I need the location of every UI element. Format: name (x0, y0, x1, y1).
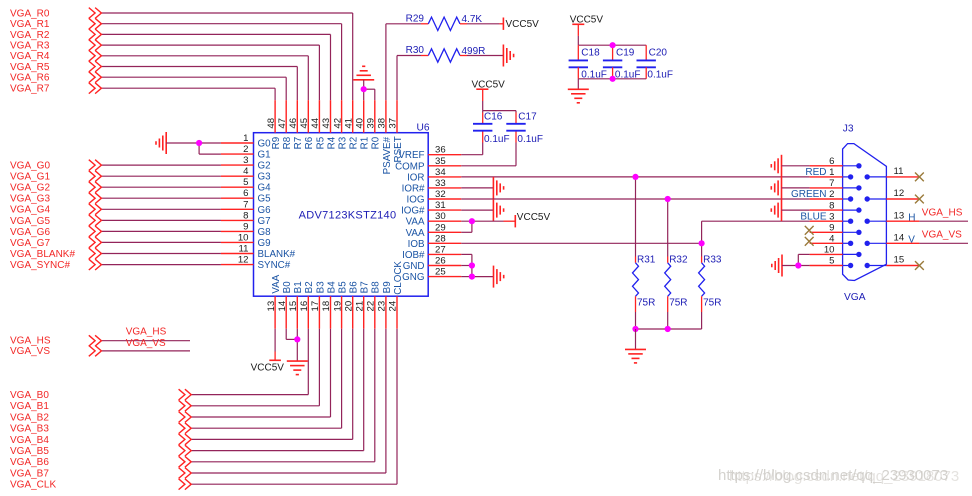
svg-text:21: 21 (354, 301, 365, 312)
resistor R32 75R (665, 199, 688, 329)
power symbol VCC5V above C18 C19 C20 (570, 15, 604, 36)
svg-text:U6: U6 (416, 123, 429, 134)
svg-text:VGA_B0: VGA_B0 (10, 390, 49, 401)
J3 pin circles (843, 163, 887, 268)
power symbol VCC5V at VAA (515, 212, 550, 228)
svg-text:27: 27 (435, 244, 446, 255)
svg-text:G1: G1 (258, 150, 271, 161)
svg-text:45: 45 (299, 118, 310, 129)
capacitor C17 0.1uF (506, 111, 543, 145)
svg-text:IOG: IOG (407, 195, 425, 206)
svg-text:44: 44 (310, 117, 321, 128)
junction at C19 bottom (610, 76, 616, 82)
U6 right pin numbers 36-25 (435, 145, 446, 278)
svg-text:75R: 75R (637, 298, 655, 309)
svg-text:48: 48 (266, 118, 277, 129)
svg-text:VGA_VS: VGA_VS (10, 346, 50, 357)
svg-text:VGA_R2: VGA_R2 (10, 30, 50, 41)
svg-text:VGA_B1: VGA_B1 (10, 401, 49, 412)
svg-text:BLANK#: BLANK# (258, 249, 296, 260)
svg-text:28: 28 (435, 233, 446, 244)
svg-text:VAA: VAA (406, 217, 425, 228)
svg-text:2: 2 (243, 144, 248, 155)
junction at C19 top (610, 42, 616, 48)
svg-text:VGA_B3: VGA_B3 (10, 424, 49, 435)
junction R31 top (632, 174, 638, 180)
wire VGA_HS stub (101, 340, 190, 342)
ground at U6 pins 1,2 (G0,G1) (156, 132, 221, 154)
svg-text:8: 8 (243, 210, 248, 221)
svg-text:8: 8 (829, 200, 834, 211)
svg-text:25: 25 (435, 267, 446, 278)
capacitor C19 0.1uF (603, 48, 641, 81)
svg-text:BLUE: BLUE (800, 211, 826, 222)
ground at R30 (503, 45, 513, 67)
svg-text:B3: B3 (315, 281, 326, 294)
svg-text:R29: R29 (406, 13, 425, 24)
svg-text:G8: G8 (258, 227, 272, 238)
svg-text:C17: C17 (518, 111, 537, 122)
svg-text:RED: RED (805, 167, 826, 178)
svg-text:SYNC#: SYNC# (258, 260, 291, 271)
wires VGA_R0..VGA_R7 from chevrons to U6 pins 41..48 (101, 13, 353, 100)
ground at U6 pins 27,26,25 (494, 266, 504, 288)
ground at U6 pins 14,15 (B0,B1) (286, 329, 308, 375)
svg-text:41: 41 (343, 118, 354, 129)
svg-text:VGA_B2: VGA_B2 (10, 412, 49, 423)
U6 left pins 1-12 stubs (221, 143, 254, 265)
svg-text:R2: R2 (349, 137, 360, 150)
svg-text:17: 17 (310, 301, 321, 312)
svg-text:C16: C16 (484, 111, 503, 122)
svg-text:1: 1 (829, 167, 834, 178)
svg-text:37: 37 (388, 118, 399, 129)
wire J3 pin13 VGA_HS (908, 208, 968, 224)
svg-text:29: 29 (435, 222, 446, 233)
ground at U6 pin33 IOR# (461, 177, 503, 199)
svg-text:4: 4 (829, 234, 835, 245)
svg-text:499R: 499R (462, 46, 486, 57)
J3 left pin numbers (824, 156, 835, 267)
svg-text:10: 10 (824, 245, 835, 256)
svg-text:22: 22 (366, 301, 377, 312)
svg-text:VGA_B5: VGA_B5 (10, 446, 49, 457)
svg-text:VCC5V: VCC5V (472, 80, 506, 91)
svg-text:26: 26 (435, 256, 446, 267)
svg-text:7: 7 (829, 178, 834, 189)
svg-text:3: 3 (243, 155, 248, 166)
svg-text:VGA_SYNC#: VGA_SYNC# (10, 260, 70, 271)
wires VGA_B0..B7 VGA_CLK to U6 pins 16-24 (191, 329, 397, 485)
svg-text:12: 12 (238, 255, 249, 266)
svg-text:CLOCK: CLOCK (393, 261, 404, 295)
svg-text:2: 2 (829, 189, 834, 200)
svg-text:0.1uF: 0.1uF (484, 134, 510, 145)
wire U6 pin32 IOG to J3 pin2 GREEN (461, 198, 809, 200)
U6 left pin numbers 1-12 (238, 133, 249, 266)
svg-text:47: 47 (277, 118, 288, 129)
junction rail R32 (665, 326, 671, 332)
svg-text:IOG#: IOG# (401, 206, 425, 217)
no-connect X at J3 pin11 (915, 173, 924, 182)
svg-text:R5: R5 (315, 136, 326, 149)
svg-text:VGA: VGA (844, 292, 866, 303)
svg-text:IOR#: IOR# (402, 183, 425, 194)
svg-text:75R: 75R (669, 298, 687, 309)
no-connect X at J3 pin9 (805, 226, 814, 235)
svg-text:1: 1 (243, 133, 248, 144)
resistor R29 4.7K (406, 13, 504, 30)
svg-text:18: 18 (321, 301, 332, 312)
ground below C18 (568, 79, 589, 103)
svg-text:VCC5V: VCC5V (517, 212, 551, 223)
wire VCC5V rail to caps C18 C19 C20 (578, 36, 646, 61)
net labels VGA_G0..VGA_G7 VGA_BLANK# VGA_SYNC# (10, 161, 75, 272)
svg-text:VGA_R6: VGA_R6 (10, 73, 50, 84)
svg-text:B1: B1 (293, 281, 304, 293)
wire VCC5V to caps C16 C17 (483, 101, 516, 124)
svg-text:0.1uF: 0.1uF (517, 134, 543, 145)
svg-text:12: 12 (894, 188, 905, 199)
svg-text:39: 39 (366, 118, 377, 129)
svg-text:19: 19 (332, 301, 343, 312)
wires VGA_G0..G7 BLANK SYNC to U6 pins 3-12 (101, 165, 221, 265)
ground below terminator rail (625, 329, 646, 363)
svg-text:30: 30 (435, 211, 446, 222)
svg-text:VAA: VAA (406, 228, 425, 239)
svg-text:23: 23 (377, 301, 388, 312)
svg-text:VGA_HS: VGA_HS (922, 208, 963, 219)
svg-text:C18: C18 (581, 48, 600, 59)
svg-text:B0: B0 (282, 281, 293, 294)
capacitor C20 0.1uF (637, 48, 673, 81)
J3 left pin stubs (810, 166, 843, 266)
wire caps bottom rail (578, 67, 646, 79)
svg-text:G3: G3 (258, 172, 272, 183)
junction at B1 ground wire (294, 336, 300, 342)
svg-text:PSAVE#: PSAVE# (382, 136, 393, 174)
junction on G0 ground wire (196, 140, 202, 146)
chevrons for VGA_G bus (89, 160, 102, 270)
svg-text:32: 32 (435, 189, 446, 200)
svg-text:5: 5 (243, 177, 248, 188)
wire U6 pins 27,26,25 to ground (461, 254, 493, 276)
svg-text:VGA_R5: VGA_R5 (10, 62, 50, 73)
svg-text:VGA_G1: VGA_G1 (10, 172, 50, 183)
svg-text:V: V (908, 235, 915, 246)
svg-text:VGA_CLK: VGA_CLK (10, 480, 56, 491)
wire U6 pin34 IOR to J3 pin1 RED (461, 176, 809, 178)
no-connect X at J3 pin4 (805, 237, 814, 246)
svg-text:IOB#: IOB# (402, 250, 425, 261)
svg-text:G5: G5 (258, 194, 272, 205)
svg-text:IOR: IOR (407, 172, 424, 183)
svg-text:B8: B8 (371, 281, 382, 294)
svg-text:R31: R31 (637, 254, 656, 265)
U6 left pin names G0..G9 BLANK# SYNC# (258, 139, 296, 272)
svg-text:9: 9 (243, 221, 248, 232)
svg-text:10: 10 (238, 232, 249, 243)
svg-text:G9: G9 (258, 238, 271, 249)
svg-text:VGA_G2: VGA_G2 (10, 183, 50, 194)
svg-text:G4: G4 (258, 183, 272, 194)
U6 bottom pin names VAA B0..B9 CLOCK (271, 261, 404, 295)
J3 right pin stubs (886, 177, 919, 266)
wire U6 pin28 IOB toward J3 pin3 BLUE (461, 221, 809, 243)
svg-text:24: 24 (388, 300, 399, 311)
ground above U6 pins 40,39 (R1,R0) (353, 66, 375, 100)
svg-text:14: 14 (894, 233, 905, 244)
wire U6 pins 30,29 VAA to VCC5V (461, 221, 515, 232)
svg-text:35: 35 (435, 156, 446, 167)
svg-text:9: 9 (829, 223, 834, 234)
chevrons for VGA_B bus (179, 389, 192, 489)
svg-text:VGA_G4: VGA_G4 (10, 205, 50, 216)
net labels VGA_HS VGA_VS left (10, 327, 167, 357)
wire U6 pin37 RSET up to R30 (397, 56, 428, 101)
no-connect X at J3 pin15 (915, 261, 924, 270)
chevrons for VGA_HS VGA_VS (89, 335, 102, 356)
junction GND pin26 (469, 262, 475, 268)
svg-text:VGA_R4: VGA_R4 (10, 51, 50, 62)
svg-text:R33: R33 (703, 254, 722, 265)
svg-text:GREEN: GREEN (791, 189, 827, 200)
svg-text:20: 20 (343, 301, 354, 312)
svg-text:G2: G2 (258, 161, 271, 172)
svg-text:14: 14 (277, 300, 288, 311)
resistor R31 75R (633, 177, 656, 329)
svg-text:VGA_R7: VGA_R7 (10, 84, 50, 95)
junction R32 top (665, 196, 671, 202)
U6 bottom pin numbers 13-24 (266, 300, 399, 311)
svg-text:B4: B4 (326, 281, 337, 294)
svg-text:ADV7123KSTZ140: ADV7123KSTZ140 (299, 209, 397, 221)
connector J3 DB15 body (843, 123, 887, 303)
power symbol VCC5V above C16 C17 (472, 80, 506, 101)
svg-text:B7: B7 (360, 281, 371, 293)
svg-text:VGA_R0: VGA_R0 (10, 8, 50, 19)
wire J3 pin14 VGA_VS (908, 230, 968, 246)
svg-text:R32: R32 (669, 254, 688, 265)
svg-text:R8: R8 (282, 136, 293, 149)
svg-text:5: 5 (829, 256, 834, 267)
svg-text:G6: G6 (258, 205, 272, 216)
svg-text:VGA_G3: VGA_G3 (10, 194, 50, 205)
svg-text:15: 15 (894, 255, 905, 266)
svg-text:IOB: IOB (408, 239, 425, 250)
wire terminator bottom rail (636, 328, 702, 330)
svg-text:R4: R4 (326, 136, 337, 149)
J3 RED GREEN BLUE labels (791, 167, 827, 222)
svg-text:COMP: COMP (395, 161, 425, 172)
svg-text:15: 15 (288, 301, 299, 312)
resistor R30 499R (406, 45, 504, 62)
svg-text:38: 38 (377, 118, 388, 129)
svg-text:13: 13 (894, 210, 905, 221)
svg-text:B6: B6 (349, 281, 360, 294)
svg-text:VGA_G6: VGA_G6 (10, 227, 50, 238)
svg-text:VGA_B4: VGA_B4 (10, 435, 49, 446)
svg-text:R3: R3 (338, 136, 349, 149)
svg-text:C20: C20 (649, 48, 668, 59)
svg-text:VGA_VS: VGA_VS (922, 230, 962, 241)
svg-text:16: 16 (299, 301, 310, 312)
svg-text:C19: C19 (616, 48, 635, 59)
wire VGA_VS stub (101, 350, 190, 352)
svg-text:VCC5V: VCC5V (506, 19, 540, 30)
grounds at J3 pins 6,7,8 (771, 155, 809, 221)
svg-text:11: 11 (894, 166, 904, 177)
svg-text:6: 6 (243, 188, 248, 199)
svg-text:46: 46 (288, 118, 299, 129)
svg-text:J3: J3 (843, 123, 854, 134)
svg-text:75R: 75R (703, 298, 721, 309)
svg-text:VGA_B7: VGA_B7 (10, 468, 49, 479)
svg-text:7: 7 (243, 199, 248, 210)
junction rail R31 (632, 326, 638, 332)
net labels VGA_R0..VGA_R7 (10, 8, 50, 94)
watermark (718, 467, 959, 485)
svg-text:VREF: VREF (398, 150, 424, 161)
svg-text:3: 3 (829, 211, 834, 222)
svg-text:G7: G7 (258, 216, 271, 227)
svg-text:VCC5V: VCC5V (251, 363, 285, 374)
svg-text:VGA_HS: VGA_HS (126, 327, 167, 338)
svg-text:6: 6 (829, 156, 834, 167)
svg-text:GNG: GNG (402, 272, 424, 283)
wire U6 pin38 PSAVE# up to R29 (386, 24, 428, 100)
junction at J3 pin5 ground (795, 262, 801, 268)
svg-text:B9: B9 (382, 281, 393, 293)
svg-text:VGA_B6: VGA_B6 (10, 457, 49, 468)
svg-text:R30: R30 (406, 45, 425, 56)
svg-text:VGA_G7: VGA_G7 (10, 238, 50, 249)
svg-text:B5: B5 (338, 281, 349, 294)
svg-text:GND: GND (403, 261, 425, 272)
svg-text:43: 43 (321, 118, 332, 129)
junction VAA pins join (469, 218, 475, 224)
ground at U6 pin31 IOG# (461, 199, 503, 221)
junction GND pin25 (469, 274, 475, 280)
svg-text:42: 42 (332, 118, 343, 129)
junction R33 top (699, 240, 705, 246)
svg-text:13: 13 (266, 301, 277, 312)
svg-text:34: 34 (435, 167, 446, 178)
U6 top pins 48-37 stubs (275, 100, 397, 133)
svg-text:https://blog.csdn.net/qq_23918: https://blog.csdn.net/qq_23918073 (729, 468, 959, 485)
capacitor C16 0.1uF (473, 111, 510, 145)
svg-text:G0: G0 (258, 139, 272, 150)
power symbol VCC5V at R29 (503, 18, 539, 30)
resistor R33 75R (699, 243, 722, 329)
capacitor C18 0.1uF (569, 48, 607, 81)
svg-text:11: 11 (239, 244, 249, 255)
no-connect X at J3 pin12 (915, 195, 924, 204)
svg-text:4.7K: 4.7K (462, 14, 483, 25)
U6 right pins 36-25 stubs (428, 155, 461, 277)
svg-text:33: 33 (435, 178, 446, 189)
svg-text:VCC5V: VCC5V (570, 15, 604, 26)
svg-text:40: 40 (354, 118, 365, 129)
svg-text:0.1uF: 0.1uF (647, 69, 673, 80)
U6 bottom pins 13-24 stubs (275, 296, 397, 329)
svg-text:R7: R7 (293, 137, 304, 150)
svg-text:VGA_G5: VGA_G5 (10, 216, 50, 227)
svg-text:R6: R6 (304, 136, 315, 149)
svg-text:31: 31 (435, 200, 446, 211)
svg-text:B2: B2 (304, 281, 315, 293)
net labels VGA_B0..VGA_B7 VGA_CLK (10, 390, 56, 491)
svg-text:VAA: VAA (271, 274, 282, 293)
power symbol VCC5V at U6 pin13 VAA (251, 329, 285, 374)
wire U6 pin36 VREF to C16 (461, 131, 482, 155)
svg-text:VGA_VS: VGA_VS (126, 338, 166, 349)
svg-text:VGA_R3: VGA_R3 (10, 41, 50, 52)
U6 top pin numbers 48-37 (266, 117, 399, 128)
junction on ground net at pin 40 column (361, 86, 367, 92)
svg-text:H: H (908, 212, 915, 223)
U6 right pin names VREF..GNG (395, 150, 425, 283)
svg-text:4: 4 (243, 166, 249, 177)
J3 right pin numbers 11-15 (894, 166, 905, 266)
IC U6 ADV7123KSTZ140 body (254, 123, 430, 297)
svg-text:VGA_BLANK#: VGA_BLANK# (10, 249, 75, 260)
svg-text:VGA_G0: VGA_G0 (10, 161, 50, 172)
chevrons for VGA_R bus (89, 8, 102, 94)
svg-text:R1: R1 (360, 137, 371, 150)
svg-text:VGA_R1: VGA_R1 (10, 19, 50, 30)
svg-text:36: 36 (435, 145, 446, 156)
ground at J3 pins 10,5 (772, 254, 810, 276)
svg-text:R0: R0 (371, 136, 382, 149)
U6 top pin names R9..R0 PSAVE# RSET (271, 136, 404, 174)
wire U6 pin35 COMP to C17 (461, 131, 516, 166)
svg-text:R9: R9 (271, 137, 282, 150)
